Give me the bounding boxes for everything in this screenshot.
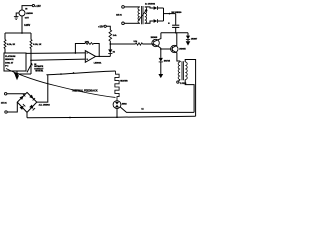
Q1 emitter (154, 44, 161, 49)
wire bridge positive (37, 75, 48, 103)
bridge diode 4 (29, 105, 33, 109)
diode D2 (160, 49, 162, 58)
wire Q1 to Q2 base (161, 48, 173, 50)
svg-text:D1: D1 (113, 52, 115, 54)
ground D3 (186, 41, 191, 45)
bridge rectifier CR3 (17, 92, 37, 112)
svg-text:40502: 40502 (122, 102, 127, 105)
wire heater feed (46, 71, 115, 75)
wire set-point bottom (17, 73, 31, 75)
svg-text:HEATER: HEATER (120, 79, 128, 82)
svg-text:1N4735: 1N4735 (164, 59, 170, 62)
terminal AC line B (5, 111, 7, 113)
junction a (60, 73, 62, 75)
resistor R1 (4, 33, 6, 40)
wire U1 top pin (22, 6, 32, 10)
wire R4 to Q1 (143, 43, 154, 45)
wire T1 primary top (179, 61, 181, 62)
wire reference rail (5, 32, 31, 34)
resistor R4 5.1k (136, 43, 143, 45)
terminal +15V a (32, 5, 34, 7)
wire T1 sec bottom (185, 80, 194, 113)
transformer T2 secondary (145, 7, 147, 23)
svg-text:115 AC: 115 AC (1, 102, 8, 105)
wire bottom rail (27, 116, 196, 118)
op-amp A1 (85, 51, 95, 63)
svg-text:WITH R1: WITH R1 (35, 71, 43, 73)
svg-text:2N3055: 2N3055 (179, 49, 185, 51)
transformer T1 secondary (185, 62, 187, 80)
svg-text:0.1%, 1K: 0.1%, 1K (7, 44, 16, 46)
transistor Q2 (171, 45, 178, 52)
svg-text:THERMAL FEEDBACK: THERMAL FEEDBACK (72, 90, 98, 93)
resistor R3 2.4k (106, 26, 110, 30)
wire rectifier node (163, 8, 165, 21)
Q2 collector (172, 33, 176, 48)
thermal feedback arrowhead (14, 73, 19, 78)
node R3 D1 R4 (109, 43, 111, 45)
diode D3 (187, 33, 189, 36)
wire unreg rail (161, 32, 188, 34)
diode CR2 (145, 21, 154, 23)
op-amp input marks (86, 52, 88, 54)
wire op-amp output (96, 55, 111, 57)
svg-text:SENSOR: SENSOR (5, 59, 14, 61)
transformer T1 primary (178, 62, 180, 80)
wire to op-amp plus (26, 52, 85, 55)
svg-text:1N3997: 1N3997 (191, 38, 197, 40)
triac Q3 (113, 101, 121, 109)
svg-text:+15V: +15V (98, 26, 104, 28)
svg-text:100Ω AT: 100Ω AT (5, 61, 14, 64)
terminal AC line A (5, 93, 7, 95)
svg-text:28V UNREG: 28V UNREG (171, 12, 182, 14)
wire T1 sec top (185, 60, 195, 117)
svg-text:5.1k: 5.1k (134, 41, 138, 43)
ground sensor (16, 71, 18, 75)
wire node to R4 (110, 43, 135, 45)
ground U1 (16, 13, 19, 17)
wire U1 out (21, 16, 23, 33)
terminal AC top (122, 6, 125, 9)
Q1 collector (154, 33, 161, 42)
svg-text:LM308A: LM308A (94, 62, 102, 65)
transformer T1 core (182, 61, 183, 80)
junction b (73, 72, 75, 74)
svg-text:LM399: LM399 (26, 13, 34, 15)
svg-text:PLATINUM: PLATINUM (5, 55, 16, 58)
diode CR1 (145, 7, 154, 8)
capacitor C1 (175, 14, 177, 25)
wire triac anode (116, 109, 118, 118)
svg-text:+15V: +15V (35, 5, 41, 8)
terminal AC bottom (122, 22, 125, 25)
variac arrow T2 (139, 10, 147, 20)
transformer T2 primary (138, 7, 140, 23)
platinum sensor RT1 (4, 53, 26, 71)
IC U1 LM399 reference (19, 10, 25, 16)
bridge diode 2 (29, 95, 33, 99)
svg-text:0.1%, 1K: 0.1%, 1K (33, 44, 42, 46)
Q2 emitter (172, 50, 180, 61)
terminal T1 primary bottom (178, 80, 180, 82)
wire R2 to set-point (30, 49, 32, 75)
resistor R2 (30, 33, 32, 40)
resistor RH heater meander (115, 71, 119, 101)
diode D1 (109, 44, 111, 49)
ground D2 (158, 74, 163, 78)
svg-text:115 AC: 115 AC (116, 14, 123, 17)
wire bridge negative (26, 112, 28, 117)
feedback loop (75, 44, 85, 54)
wire to op-amp minus (31, 59, 85, 60)
transformer T2 core (142, 6, 143, 24)
svg-text:0°C: 0°C (5, 66, 9, 68)
terminal +15V b (104, 25, 106, 27)
transistor Q1 (152, 39, 159, 46)
wire triac gate (120, 107, 194, 113)
bridge diode 1 (20, 96, 24, 100)
svg-text:2N2905: 2N2905 (151, 37, 158, 39)
svg-text:6.95V: 6.95V (24, 25, 30, 27)
thermal feedback path (6, 69, 116, 98)
set-point arrow (27, 64, 31, 72)
svg-text:2x 1N4002: 2x 1N4002 (145, 3, 156, 6)
svg-text:10M: 10M (85, 41, 89, 43)
svg-text:ALL 1N4002: ALL 1N4002 (39, 104, 50, 107)
bridge diode 3 (20, 106, 24, 110)
